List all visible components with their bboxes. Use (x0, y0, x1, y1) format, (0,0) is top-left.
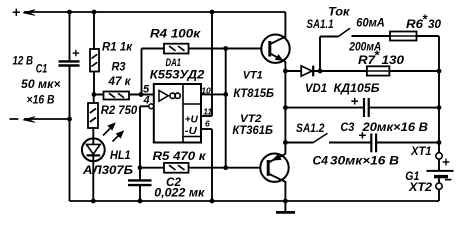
svg-text:АЛ307Б: АЛ307Б (82, 165, 133, 177)
wire output node vertical (225, 49, 227, 168)
svg-text:VD1: VD1 (305, 83, 327, 95)
node R7/right bus (437, 69, 442, 74)
svg-text:4: 4 (143, 95, 150, 107)
resistor R7 (367, 66, 439, 75)
wire pin4 to C2/R5 node (139, 106, 141, 167)
node C4/right bus/XT1 (437, 140, 442, 145)
capacitor C3 (285, 98, 439, 117)
svg-text:20мк×16 В: 20мк×16 В (361, 122, 428, 134)
svg-text:R3: R3 (112, 61, 127, 73)
svg-text:30мк×16 В: 30мк×16 В (330, 156, 399, 168)
wire bottom bus (70, 200, 440, 202)
svg-text:G1: G1 (405, 169, 419, 183)
capacitor C4 (329, 132, 439, 152)
node top bus / op-amp +U feed (210, 10, 215, 15)
minus terminal wire with arrow (10, 117, 70, 123)
node top bus / C1 (67, 10, 72, 15)
node top bus / R1 (92, 10, 97, 15)
svg-text:12 В: 12 В (13, 54, 34, 68)
switch SA1.2 (285, 133, 327, 143)
node R3/R4/pin5 (139, 92, 144, 97)
resistor R4 (142, 44, 262, 95)
svg-text:HL1: HL1 (110, 150, 131, 162)
terminal XT2 (436, 183, 442, 189)
wire top +12V bus with left arrow (23, 10, 285, 16)
node C2/R5 (138, 165, 143, 170)
node VT2 emitter / SA1.2 (283, 140, 288, 145)
svg-text:R2 750: R2 750 (101, 105, 138, 117)
svg-text:130: 130 (382, 55, 405, 67)
svg-text:VT1: VT1 (243, 70, 263, 82)
node VT1 emitter/VD1 (283, 69, 288, 74)
switch SA1.1 (320, 28, 390, 71)
node R5/VT2 base/output (223, 165, 228, 170)
ground (276, 201, 295, 212)
svg-text:11: 11 (203, 107, 212, 117)
svg-text:C4: C4 (313, 156, 329, 168)
transistor VT1 (261, 12, 289, 71)
capacitor C2 (128, 168, 152, 201)
node C2/bottom bus (138, 199, 143, 204)
LED HL1 (82, 122, 124, 201)
node pin6/bottom bus (210, 199, 215, 204)
svg-text:R5 470 к: R5 470 к (153, 149, 207, 163)
op-amp DA1 (154, 84, 201, 143)
svg-text:10: 10 (201, 85, 211, 95)
svg-text:R1 1к: R1 1к (102, 41, 133, 53)
svg-text:×16 В: ×16 В (27, 95, 55, 107)
svg-text:КТ361Б: КТ361Б (232, 123, 273, 137)
node VT2 collector/bottom bus (283, 199, 288, 204)
diode VD1 (285, 66, 367, 77)
resistor R6 (390, 32, 439, 41)
terminal XT1 (436, 153, 442, 159)
pin 4 input with inversion circle (140, 104, 154, 109)
svg-text:C1: C1 (36, 64, 48, 76)
resistor R2 (88, 95, 98, 129)
svg-text:К553УД2: К553УД2 (150, 67, 205, 81)
svg-text:47 к: 47 к (107, 76, 131, 88)
svg-text:КД105Б: КД105Б (334, 83, 380, 95)
node C3 left (283, 105, 288, 110)
svg-text:Ток: Ток (328, 5, 350, 19)
svg-text:C3: C3 (340, 122, 355, 134)
svg-text:30: 30 (428, 19, 442, 31)
node VD1/SA1.1 (318, 69, 323, 74)
svg-text:6: 6 (205, 119, 210, 129)
resistor R1 (90, 12, 99, 95)
svg-text:60мА: 60мА (356, 17, 385, 29)
resistor R3 (94, 92, 154, 100)
node R1/R2/R3 (92, 92, 97, 97)
resistor R5 (140, 163, 261, 173)
svg-text:5: 5 (143, 83, 150, 95)
svg-text:50 мк×: 50 мк× (21, 79, 61, 91)
svg-text:XT2: XT2 (408, 182, 433, 194)
capacitor C1 (59, 12, 80, 201)
wire pin 11 +U feed (201, 12, 212, 116)
node C3 right (437, 105, 442, 110)
wire pin 10 output (201, 93, 226, 95)
svg-text:SA1.1: SA1.1 (307, 19, 334, 31)
plus terminal symbol (13, 9, 20, 16)
node R4/base VT1/output (223, 46, 228, 51)
svg-text:SA1.2: SA1.2 (296, 123, 325, 135)
node HL1/bottom bus (91, 199, 96, 204)
svg-text:0,022 мк: 0,022 мк (154, 187, 205, 199)
transistor VT2 (260, 154, 288, 202)
svg-text:R4 100к: R4 100к (150, 28, 201, 40)
wire right vertical (438, 36, 440, 153)
wire XT2 to bottom bus (438, 189, 440, 201)
svg-text:-U: -U (185, 125, 197, 137)
node output pin10 (223, 92, 228, 97)
svg-text:+U: +U (185, 114, 198, 126)
wire emitter node down to VT2 (284, 71, 286, 154)
node C1/minus (67, 117, 72, 122)
battery G1 (427, 159, 454, 183)
svg-text:КТ815Б: КТ815Б (233, 86, 274, 100)
svg-text:XT1: XT1 (410, 146, 431, 158)
wire pin 6 -U to ground bus (201, 129, 212, 201)
